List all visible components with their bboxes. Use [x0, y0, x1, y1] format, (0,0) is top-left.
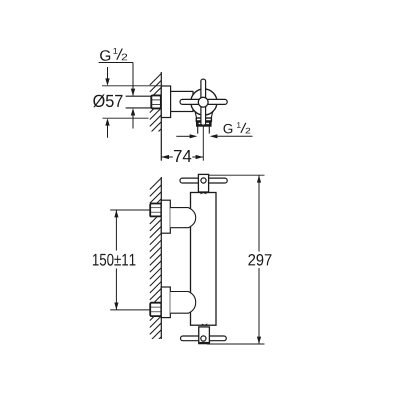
150 extension line top	[110, 209, 151, 211]
mixer body (vertical)	[191, 193, 217, 326]
top hub screw	[201, 178, 206, 183]
G1/2 label (outlet)	[224, 122, 251, 133]
G1/2 label (top left)	[100, 48, 127, 61]
297 text	[248, 254, 271, 266]
lower union nut	[150, 303, 161, 316]
wall hatching (bottom view)	[150, 178, 162, 348]
G1/2 outlet left-pointing arrow	[210, 134, 218, 138]
knurled adapter (bold)	[197, 122, 210, 126]
extension line escutcheon top	[102, 85, 161, 87]
upper escutcheon	[161, 200, 170, 233]
wall surface line / 74 extension line	[160, 72, 162, 161]
74 extension line (outlet centre)	[202, 126, 204, 161]
G1/2 leader underline	[99, 62, 133, 64]
bottom hub screw	[201, 336, 206, 341]
escutcheon O57 (side view)	[161, 86, 170, 118]
wall surface line (bottom view)	[160, 177, 162, 339]
upper S-union cone	[170, 208, 195, 228]
74 dimension line	[161, 156, 173, 158]
valve body cylinder	[171, 91, 193, 111]
upper union nut	[150, 204, 161, 217]
union nut (top view)	[151, 95, 161, 108]
collar ring	[196, 118, 211, 122]
outlet pipe G1/2	[197, 125, 199, 133]
top stem marks (black)	[200, 192, 203, 194]
O57 text	[93, 94, 122, 107]
297 dimension line + arrows	[258, 175, 260, 251]
bottom handle hub	[199, 327, 210, 344]
150 dimension line + arrows	[115, 210, 117, 251]
G1/2 outlet right-pointing arrow	[176, 135, 190, 137]
297 extension line top	[209, 174, 265, 176]
top handle bar (edge-on)	[180, 178, 227, 183]
150 extension line bottom	[110, 309, 151, 311]
G1/2 up arrow below pipe	[131, 108, 135, 115]
74 text	[174, 150, 191, 162]
extension line escutcheon bottom	[103, 117, 149, 119]
G1/2 leader vertical + down arrow to pipe	[132, 63, 134, 96]
handle horizontal spoke	[180, 99, 227, 104]
lower S-union cone	[170, 292, 195, 314]
G1/2 outlet underline	[217, 135, 252, 137]
bottom stem marks (black)	[202, 324, 205, 326]
neck below handle	[195, 111, 213, 118]
wall hatching (top view)	[150, 74, 162, 141]
297 extension line bottom	[207, 343, 265, 345]
150+-11 text	[93, 254, 135, 266]
O57 up arrow	[105, 118, 109, 125]
handle hub cap	[198, 97, 208, 107]
lower escutcheon	[161, 287, 170, 318]
O57 down arrow	[107, 67, 109, 80]
supply pipe G1/2 (behind wall)	[126, 96, 152, 108]
bottom handle bar (edge-on)	[181, 336, 227, 341]
handle vertical spoke	[201, 79, 206, 125]
handle circle (cross handle face)	[191, 89, 217, 115]
bottom hub black base	[199, 342, 210, 344]
top handle hub	[198, 174, 208, 192]
